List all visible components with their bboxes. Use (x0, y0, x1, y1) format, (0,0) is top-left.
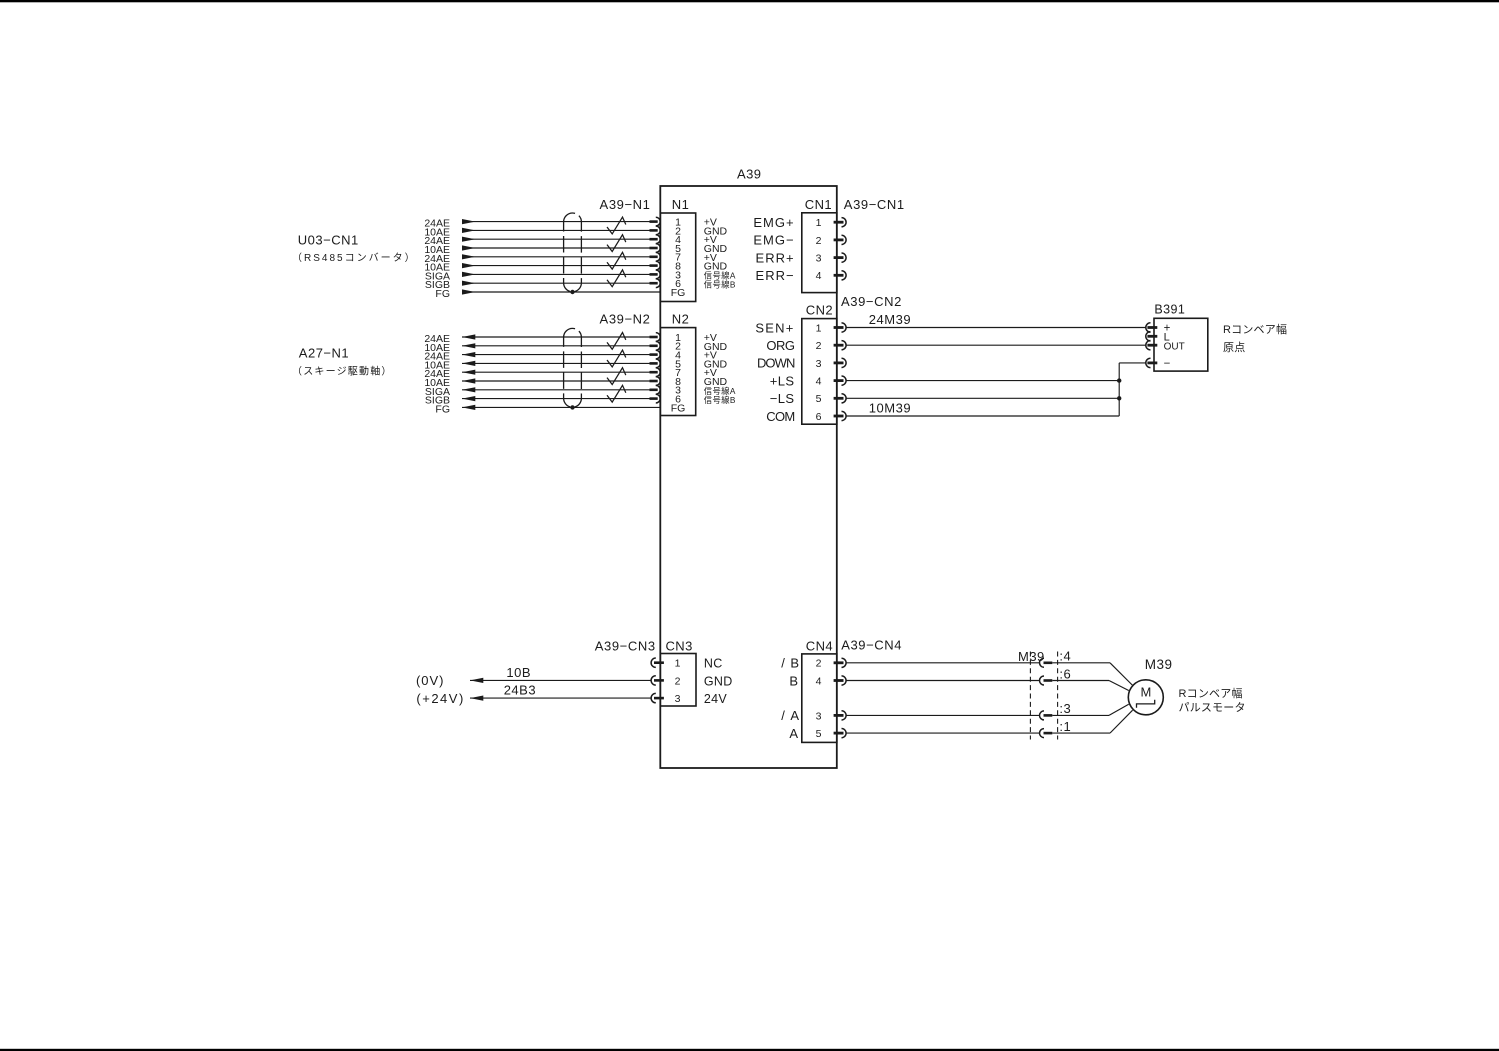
B391 pin L (1146, 332, 1151, 341)
svg-text:（RS485コンバータ）: （RS485コンバータ） (292, 252, 417, 264)
svg-text:1: 1 (675, 658, 681, 670)
svg-text:DOWN: DOWN (757, 356, 795, 371)
svg-text:3: 3 (816, 253, 822, 265)
wire 10M39 : CN2-6 (COM) to bus (846, 415, 1119, 417)
svg-text:A39−N1: A39−N1 (600, 197, 651, 212)
B391 pin OUT (1146, 341, 1151, 350)
svg-text:（スキージ駆動軸）: （スキージ駆動軸） (292, 364, 393, 377)
cable shield N2 (564, 328, 582, 407)
svg-text:3: 3 (816, 710, 822, 722)
wire N1 pin 8 (10AE) (462, 265, 650, 267)
svg-text:FG: FG (671, 287, 686, 299)
wire N1 pin 1 (24AE) (462, 221, 650, 223)
svg-text:24V: 24V (704, 692, 728, 706)
svg-text:Rコンベア幅: Rコンベア幅 (1179, 687, 1243, 700)
M39 contact 3 (1040, 711, 1045, 720)
svg-text:/A: /A (781, 708, 804, 723)
svg-text:A39: A39 (737, 166, 761, 181)
wire bus to B391 minus (1119, 362, 1146, 364)
svg-text:A39−CN2: A39−CN2 (841, 294, 902, 309)
twisted pair mark N1 pair 4 (607, 270, 626, 287)
svg-text:信号線B: 信号線B (704, 279, 736, 289)
pulse motor step symbol (1137, 700, 1155, 708)
svg-text:パルスモータ: パルスモータ (1179, 701, 1246, 714)
svg-text:10B: 10B (506, 665, 531, 680)
svg-text:Rコンベア幅: Rコンベア幅 (1223, 323, 1287, 336)
svg-text:5: 5 (816, 393, 822, 405)
svg-text:+LS: +LS (770, 373, 795, 388)
svg-text:A27−N1: A27−N1 (299, 346, 349, 361)
svg-text:4: 4 (816, 270, 822, 282)
sensor B391 box (1154, 318, 1208, 371)
B391 pin &#8722; (1146, 358, 1151, 367)
wire N1 pin 5 (10AE) (462, 247, 650, 249)
svg-text:5: 5 (816, 728, 822, 740)
svg-text:24M39: 24M39 (869, 312, 911, 327)
wire 10B : 0V to CN3-2 (470, 679, 651, 681)
connector CN1 box (802, 213, 837, 293)
cable shield N1 (564, 213, 582, 292)
svg-text:CN2: CN2 (806, 303, 833, 318)
svg-text:(0V): (0V) (416, 673, 445, 688)
M39 contact 6 (1040, 676, 1045, 685)
svg-text:2: 2 (675, 675, 681, 687)
wire CN2-4 (+LS) to bus (846, 380, 1119, 382)
crimp terminal N1-7 (650, 256, 658, 259)
svg-text:原点: 原点 (1223, 341, 1245, 354)
twisted pair mark N2 pair 2 (607, 350, 626, 367)
crimp terminal N2-7 (650, 371, 658, 374)
connector CN4 box (802, 654, 837, 743)
module A39 box (660, 186, 837, 768)
wire 24M39 : CN2-1 to B391 + (846, 327, 1146, 329)
twisted pair mark N2 pair 4 (607, 385, 626, 402)
wire N2 pin FG (FG) (462, 406, 660, 408)
wire N2 pin 6 (SIGB) (462, 398, 650, 400)
svg-text::6: :6 (1059, 667, 1071, 682)
twisted pair mark N1 pair 3 (607, 252, 626, 269)
bottom border line (0, 1049, 1499, 1051)
svg-text:3: 3 (675, 693, 681, 705)
crimp terminal N2-5 (650, 362, 658, 365)
svg-text:A39−CN1: A39−CN1 (844, 197, 905, 212)
wire N1 pin 4 (24AE) (462, 238, 650, 240)
svg-text:N2: N2 (672, 311, 689, 326)
svg-text:FG: FG (435, 403, 450, 415)
crimp terminal N1-4 (650, 238, 658, 241)
svg-text:CN3: CN3 (666, 638, 693, 653)
junction node +LS/bus (1117, 378, 1121, 382)
junction node -LS/bus (1117, 396, 1121, 400)
motor M39 circle (1128, 680, 1163, 715)
svg-text:−: − (1164, 358, 1171, 370)
svg-text:6: 6 (816, 411, 822, 423)
crimp terminal N1-3 (650, 273, 658, 276)
svg-text:A39−CN3: A39−CN3 (595, 638, 656, 653)
connector N2 box (660, 328, 695, 416)
wire N1 pin 2 (10AE) (462, 229, 650, 231)
svg-text:FG: FG (671, 402, 686, 414)
crimp terminal N1-2 (650, 229, 658, 232)
wire CN4-5 A to M39 :1 (846, 732, 1039, 734)
crimp terminal N2-2 (650, 345, 658, 348)
B391 pin + (1146, 323, 1151, 332)
svg-text::4: :4 (1059, 649, 1071, 664)
svg-text:A39−CN4: A39−CN4 (841, 638, 902, 653)
svg-text:3: 3 (816, 358, 822, 370)
M39 contact 4 (1040, 658, 1045, 667)
svg-text:1: 1 (816, 217, 822, 229)
svg-text:2: 2 (816, 340, 822, 352)
crimp terminal N1-5 (650, 247, 658, 250)
svg-text:10M39: 10M39 (869, 400, 911, 415)
svg-text:CN4: CN4 (806, 639, 833, 654)
svg-text:信号線B: 信号線B (704, 395, 736, 405)
svg-text::3: :3 (1059, 701, 1071, 716)
wire N1 pin 3 (SIGA) (462, 273, 650, 275)
crimp terminal N1-8 (650, 264, 658, 267)
twisted pair mark N1 pair 2 (607, 235, 626, 252)
svg-text:M39: M39 (1145, 657, 1173, 672)
svg-text:A39−N2: A39−N2 (600, 312, 651, 327)
crimp terminal N2-8 (650, 380, 658, 383)
twisted pair mark N1 pair 1 (607, 217, 626, 234)
svg-text:NC: NC (704, 657, 723, 671)
crimp terminal N2-3 (650, 389, 658, 392)
wire N1 pin 7 (24AE) (462, 256, 650, 258)
svg-text:CN1: CN1 (805, 197, 832, 212)
crimp terminal N1-1 (650, 220, 658, 223)
connector CN3 box (660, 654, 696, 707)
shield-FG junction dot (570, 405, 574, 409)
wire N1 pin 6 (SIGB) (462, 282, 650, 284)
twisted pair mark N2 pair 3 (607, 368, 626, 385)
wire CN4-4 B to M39 :6 (846, 680, 1039, 682)
M39 contact 1 (1040, 729, 1045, 738)
wire N2 pin 5 (10AE) (462, 362, 650, 364)
crimp terminal N2-6 (650, 397, 658, 400)
svg-text:B391: B391 (1154, 303, 1185, 317)
svg-text:ORG: ORG (766, 338, 795, 353)
wire N1 pin FG (FG) (462, 291, 660, 293)
svg-text:ERR+: ERR+ (756, 250, 795, 265)
wire N2 pin 3 (SIGA) (462, 389, 650, 391)
wire N2 pin 2 (10AE) (462, 345, 650, 347)
svg-text:FG: FG (435, 288, 450, 300)
connector M39 boundary dashed line right (1057, 652, 1059, 740)
svg-text:GND: GND (704, 674, 733, 688)
svg-text::1: :1 (1059, 719, 1071, 734)
svg-text:B: B (789, 673, 798, 688)
svg-text:4: 4 (816, 675, 822, 687)
svg-text:OUT: OUT (1164, 341, 1185, 352)
wire vertical bus (1118, 363, 1120, 416)
svg-text:ERR−: ERR− (756, 268, 795, 283)
wire N2 pin 4 (24AE) (462, 354, 650, 356)
svg-text:COM: COM (766, 409, 794, 424)
svg-text:N1: N1 (672, 197, 689, 212)
svg-text:24B3: 24B3 (504, 683, 536, 698)
svg-text:M: M (1140, 685, 1151, 700)
svg-text:M39: M39 (1018, 649, 1045, 664)
wire 24B3 : +24V to CN3-3 (470, 697, 651, 699)
wire N2 pin 8 (10AE) (462, 380, 650, 382)
svg-text:(+24V): (+24V) (416, 691, 464, 706)
svg-text:EMG−: EMG− (753, 233, 794, 248)
svg-text:4: 4 (816, 376, 822, 388)
svg-text:2: 2 (816, 235, 822, 247)
wire CN2-2 to B391 OUT (846, 344, 1146, 346)
wire N2 pin 7 (24AE) (462, 371, 650, 373)
crimp terminal N1-6 (650, 282, 658, 285)
shield-FG junction dot (570, 290, 574, 294)
svg-text:SEN+: SEN+ (755, 320, 794, 335)
connector CN2 box (802, 319, 837, 425)
twisted pair mark N2 pair 1 (607, 333, 626, 350)
wire N2 pin 1 (24AE) (462, 336, 650, 338)
connector M39 boundary dashed line left (1029, 652, 1031, 740)
wire CN4-3 /A to M39 :3 (846, 714, 1039, 716)
svg-text:U03−CN1: U03−CN1 (298, 232, 359, 247)
connector N1 box (660, 213, 695, 302)
crimp terminal N2-1 (650, 336, 658, 339)
wire CN4-2 /B to M39 :4 (846, 662, 1039, 664)
svg-text:2: 2 (816, 658, 822, 670)
top border bar (0, 0, 1499, 2)
svg-text:EMG+: EMG+ (753, 215, 794, 230)
svg-text:1: 1 (816, 322, 822, 334)
svg-text:/B: /B (781, 656, 804, 671)
wire CN2-5 (-LS) to bus (846, 397, 1119, 399)
svg-text:−LS: −LS (770, 391, 795, 406)
svg-text:A: A (789, 726, 798, 741)
crimp terminal N2-4 (650, 353, 658, 356)
